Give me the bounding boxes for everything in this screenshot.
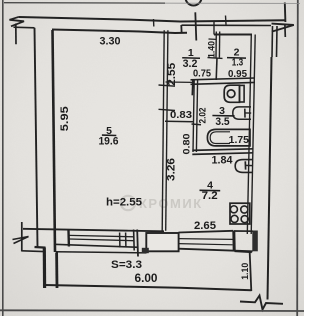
wire: break arm bottom left	[22, 250, 44, 253]
wire: wall box top line	[234, 230, 253, 232]
node: dim line 0.83	[165, 120, 194, 123]
svg-text:3.5: 3.5	[215, 116, 229, 128]
svg-text:S=3.3: S=3.3	[111, 259, 142, 271]
svg-text:0.75: 0.75	[193, 68, 211, 80]
svg-text:6.00: 6.00	[135, 273, 158, 285]
wire: bathroom left wall double	[193, 80, 194, 153]
svg-text:3.30: 3.30	[100, 36, 121, 48]
wire: break stub top left	[15, 24, 17, 45]
svg-text:0.83: 0.83	[170, 109, 192, 121]
wire: balcony bottom line	[45, 285, 252, 290]
wire: top wall second outer line right section	[182, 24, 272, 26]
node: door jamb bathroom	[191, 80, 194, 95]
node: entrance jamb left	[180, 25, 182, 32]
svg-text:2.02: 2.02	[197, 108, 207, 124]
wire: kitchen bottom wall top line	[179, 231, 234, 233]
window room5 mullion	[119, 233, 121, 248]
node: dim tick 1.40 top	[209, 38, 217, 40]
window room5 pane lines	[70, 235, 134, 236]
node: tick on top wall	[153, 19, 155, 27]
node: tick on bathroom wall	[192, 123, 202, 126]
svg-text:2.65: 2.65	[194, 220, 216, 232]
node: dim tick 1.40 bottom	[208, 57, 223, 60]
svg-text:0.95: 0.95	[228, 68, 247, 80]
svg-text:1.84: 1.84	[212, 155, 233, 167]
node: riser circle	[186, 0, 202, 6]
kitchen sink	[235, 160, 253, 173]
wire: hallway bottom wall double	[191, 78, 256, 80]
wire: balcony top right arm	[235, 251, 252, 252]
bathtub inner line	[210, 132, 230, 144]
svg-text:h=2.55: h=2.55	[106, 197, 142, 209]
wire: bottom right wall with break	[240, 296, 283, 310]
wire: door threshold hallway	[166, 81, 193, 83]
window kitchen pane lines	[179, 238, 233, 241]
svg-text:КРОМИК: КРОМИК	[139, 196, 203, 211]
svg-text:2.55: 2.55	[166, 63, 178, 86]
wire: sill outer line	[56, 252, 147, 253]
wire: room 5 left wall	[53, 30, 56, 252]
node: step wall A to pillar	[35, 246, 46, 249]
wire: room5 right dividing wall double	[162, 30, 164, 231]
toilet cistern	[240, 85, 245, 102]
balcony door box	[146, 233, 178, 251]
window room5 right cap	[133, 230, 136, 251]
wire: right outer wall double top	[271, 26, 274, 57]
svg-text:1.40: 1.40	[205, 41, 216, 58]
wire: wall between rooms 1 and 2	[215, 32, 217, 58]
node: tick on dividing wall upper	[159, 85, 176, 86]
svg-text:19.6: 19.6	[98, 136, 118, 148]
wire: vertical above break top right	[284, 3, 287, 23]
wire: right outer wall	[268, 57, 272, 300]
node: entrance jamb right	[213, 22, 215, 35]
toilet bowl	[224, 85, 239, 102]
bathtub outline	[207, 129, 250, 146]
wire: top wall inner line left	[52, 30, 187, 34]
svg-text:3.26: 3.26	[166, 158, 178, 181]
wire: bathroom bottom wall double	[192, 149, 253, 151]
node: kitchen wall right jamb dark	[252, 231, 257, 252]
wire: top outer wall line	[19, 17, 286, 22]
balcony left support lines	[43, 248, 46, 289]
wire: balcony right side	[250, 252, 252, 291]
svg-text:1.3: 1.3	[232, 56, 244, 68]
washbasin	[233, 107, 251, 119]
wire: room5 bottom wall bottom line	[54, 244, 139, 247]
svg-text:5.95: 5.95	[59, 106, 71, 131]
wire: kitchen bottom wall bottom line	[179, 249, 253, 252]
watermark logo circle	[121, 196, 135, 210]
node: tick on dividing wall lower	[159, 109, 176, 110]
svg-text:1.10: 1.10	[240, 263, 251, 280]
wire: riser line	[195, 12, 196, 40]
window room5 left cap	[67, 231, 70, 247]
node: dark nub at door left	[142, 248, 149, 253]
toilet bowl circle	[227, 90, 235, 98]
svg-text:1.75: 1.75	[229, 135, 250, 146]
wire: apartment right wall inner double	[247, 35, 251, 235]
svg-text:0.80: 0.80	[182, 134, 192, 155]
wire: room5 bottom wall top line	[23, 229, 164, 232]
wire: left wall outer line	[35, 28, 38, 247]
node: break symbol bottom left stub	[21, 222, 23, 252]
node: break symbol top left	[10, 17, 25, 27]
node: break symbol bottom left zigzag	[13, 237, 29, 244]
stove	[230, 203, 250, 224]
wire: top wall inner line right	[214, 34, 252, 36]
node: kitchen window right cap	[232, 231, 235, 251]
svg-text:7.2: 7.2	[202, 190, 218, 202]
wire: break arm top left	[14, 26, 35, 29]
node: tick on top wall x226	[225, 16, 228, 25]
node: break symbol top right	[272, 24, 294, 32]
